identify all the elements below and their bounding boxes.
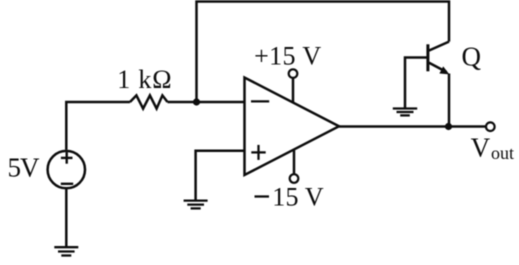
- wire feedback top: from inverting-input node up, across top, down to Q collector: [197, 2, 450, 103]
- V1 plus sign: [61, 152, 73, 164]
- wire input: source top to resistor: [66, 102, 130, 150]
- wire resistor to op-amp inverting input: [168, 101, 245, 104]
- transistor Q base bar: [426, 44, 429, 71]
- Vout open terminal circle: [486, 122, 495, 131]
- wire +15V terminal: [292, 78, 295, 103]
- svg-text:V: V: [471, 132, 491, 162]
- wire non-inverting input to ground: [196, 151, 245, 200]
- transistor Q collector stroke: [429, 42, 449, 51]
- ground below V1: [54, 247, 78, 255]
- svg-text:5V: 5V: [8, 153, 41, 183]
- svg-text:1 kΩ: 1 kΩ: [117, 65, 172, 94]
- transistor Q emitter arrowhead: [439, 66, 449, 74]
- V1 minus sign: [61, 183, 73, 185]
- svg-text:out: out: [491, 143, 514, 163]
- svg-text:+15 V: +15 V: [254, 42, 321, 71]
- op-amp minus symbol: [251, 100, 269, 102]
- wire emitter down to output node: [448, 74, 451, 127]
- -15V terminal circle: [290, 174, 299, 183]
- +15V terminal circle: [289, 69, 298, 78]
- ground at Q base: [393, 109, 417, 116]
- wire op-amp output to Vout terminal: [339, 125, 486, 128]
- svg-text:Q: Q: [462, 42, 482, 72]
- node output junction (dot): [445, 123, 452, 130]
- voltage source V1 circle: [48, 151, 85, 188]
- transistor Q emitter stroke: [429, 63, 447, 72]
- op-amp plus symbol: [251, 145, 265, 160]
- svg-text:15 V: 15 V: [272, 182, 324, 211]
- node junction at inverting input (dot): [193, 98, 200, 105]
- wire -15V terminal: [293, 150, 296, 174]
- ground at non-inverting input: [184, 201, 208, 209]
- op-amp U1 triangle: [245, 78, 340, 176]
- label -15 V: [255, 182, 324, 211]
- wire source bottom to ground: [65, 189, 68, 246]
- resistor R1 zigzag: [130, 95, 168, 108]
- wire base to ground: [405, 58, 427, 108]
